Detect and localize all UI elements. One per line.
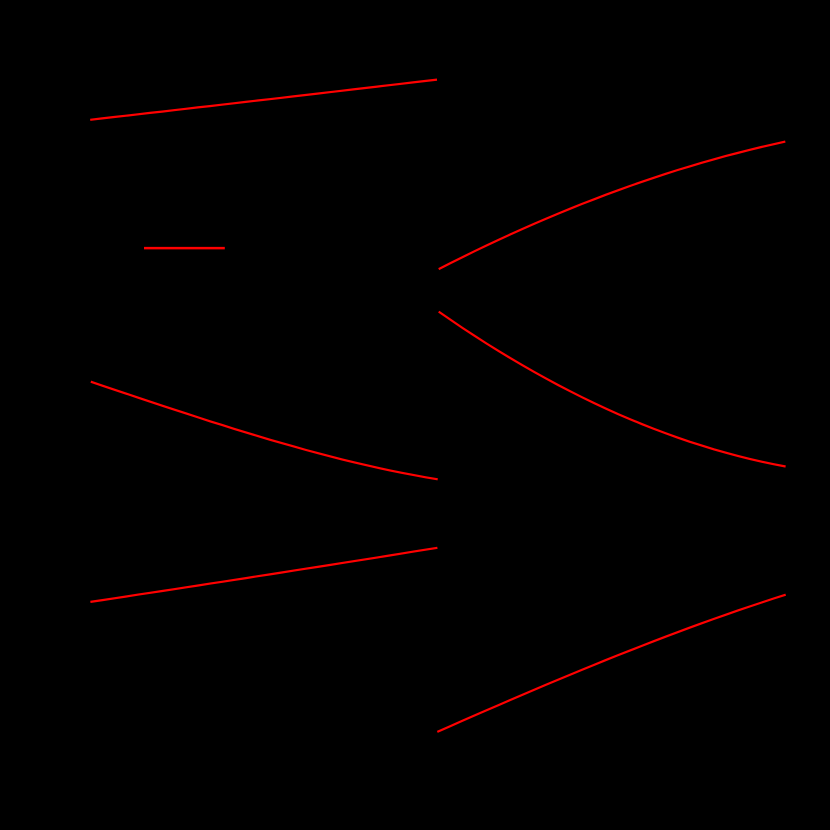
red segment 2: short horizontal bar xyxy=(144,247,225,250)
red curve 5: upper-right rising curve xyxy=(439,142,786,270)
red curve 6: mid-right declining curve xyxy=(439,312,786,467)
red curve 3: mid-left declining S-curve xyxy=(91,382,438,480)
red curve 7: bottom-right rising curve xyxy=(437,595,785,732)
red curve 1: top-left rising line xyxy=(90,80,437,120)
red curve 4: lower-left rising line xyxy=(90,548,437,602)
